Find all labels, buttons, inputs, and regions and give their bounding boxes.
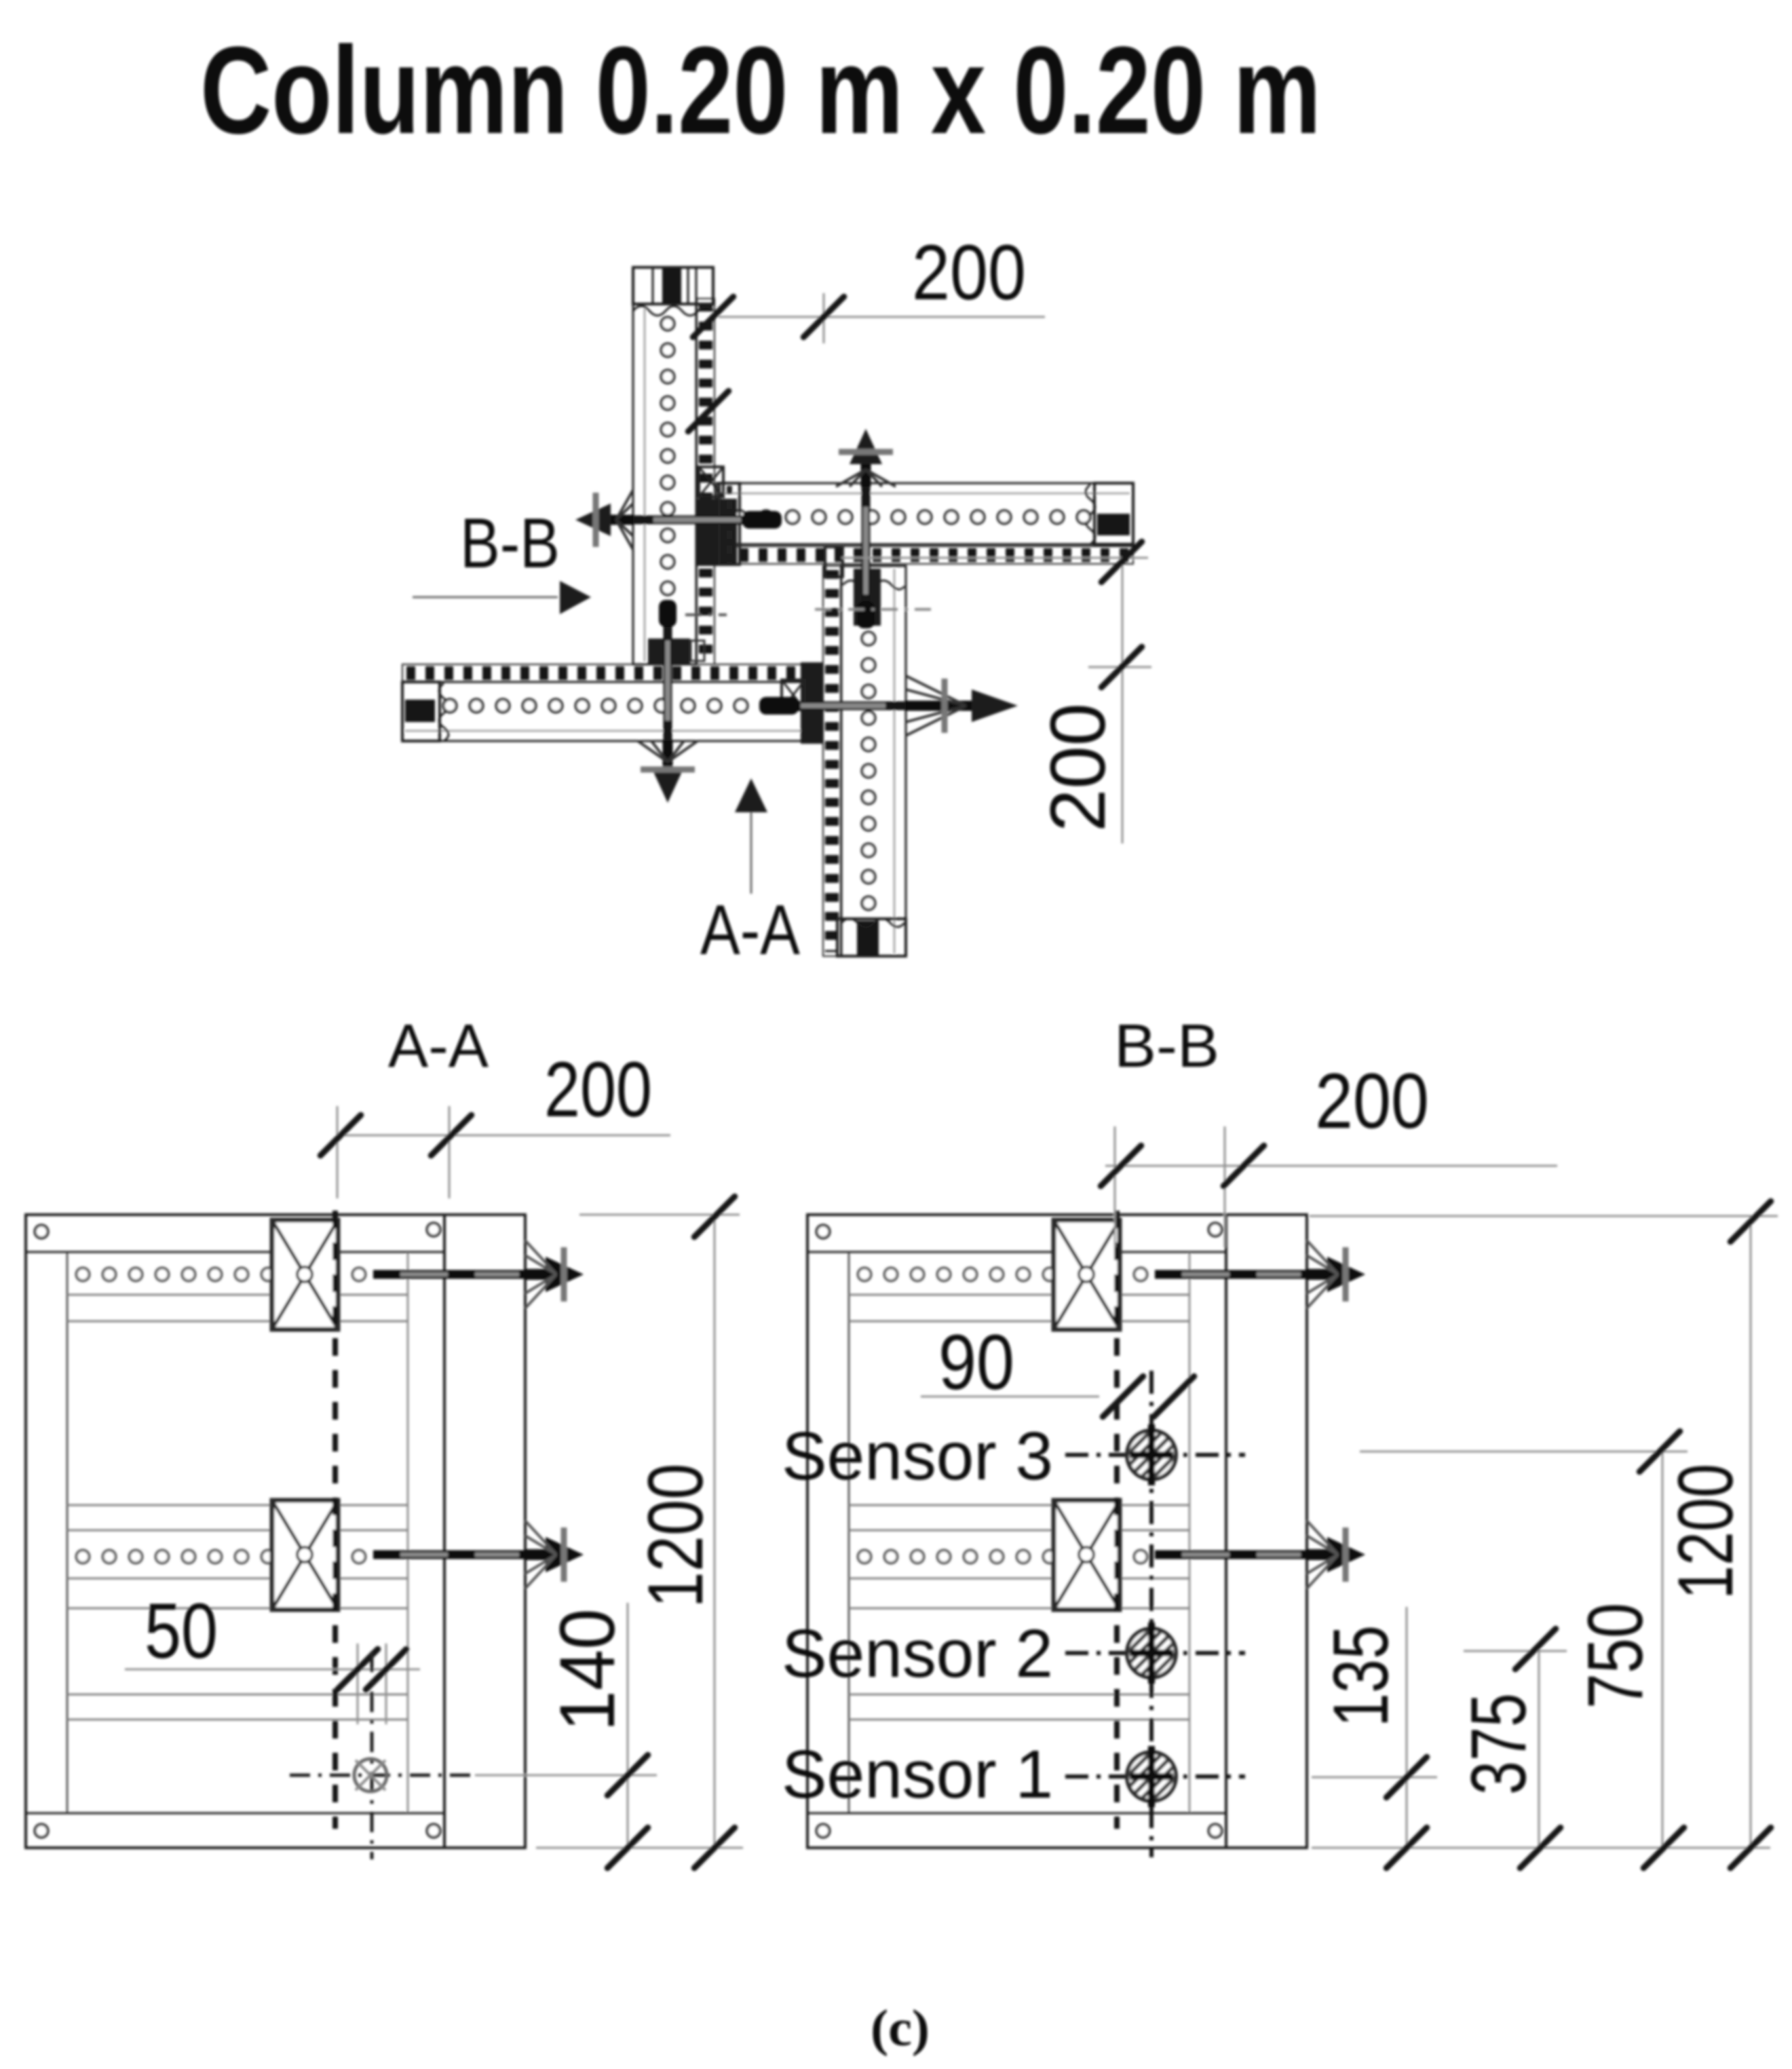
holes of top panel	[662, 318, 674, 330]
tie rod lower	[1155, 1551, 1307, 1559]
B-B dimension 200	[1114, 1126, 1116, 1247]
plan view: formwork panel left (horizontal, below column)	[402, 682, 822, 741]
B-B dimension 90	[921, 1396, 1099, 1398]
A-A dimension 140	[475, 1774, 657, 1777]
tie rod north (vertical through upper-right corner)	[862, 487, 871, 615]
waler clamp upper	[272, 1220, 338, 1329]
centre line marks in column core	[685, 613, 727, 616]
tie rod south (vertical through lower-left corner)	[664, 620, 672, 741]
section mark A-A with arrow	[735, 778, 767, 812]
right joint of left panel (overlap with bottom panel strip)	[801, 662, 822, 744]
section outline	[807, 1215, 1307, 1848]
waler clamp lower	[1054, 1500, 1120, 1610]
waler band lines	[849, 1294, 1189, 1296]
B-B dimension 375	[1464, 1650, 1567, 1652]
svg-text:Sensor 1: Sensor 1	[782, 1736, 1053, 1812]
tie rod lower	[373, 1551, 525, 1559]
svg-text:750: 750	[1572, 1603, 1659, 1709]
tie rod east (horizontal through lower-right corner)	[780, 702, 906, 710]
waler clamp lower	[272, 1500, 338, 1610]
section cut dashed line	[1114, 1211, 1120, 1829]
corner screw holes	[817, 1226, 830, 1238]
section cut dashed line	[332, 1211, 338, 1829]
svg-text:Column 0.20 m x 0.20 m: Column 0.20 m x 0.20 m	[200, 20, 1321, 159]
svg-text:1200: 1200	[632, 1464, 719, 1608]
hole rows	[77, 1268, 90, 1281]
holes of right panel	[733, 511, 746, 524]
dimension 200 (right, plan)	[1122, 558, 1124, 843]
B-B dimension 1200	[1310, 1215, 1778, 1217]
holes of bottom panel	[862, 632, 875, 645]
tie rod west (horizontal through upper-left corner)	[633, 516, 761, 525]
svg-text:90: 90	[938, 1319, 1014, 1406]
left joint of right panel (overlap with top panel strip)	[698, 499, 737, 566]
dimension 200 (top, plan)	[719, 316, 1045, 318]
plan view: formwork panel right (horizontal, above column)	[717, 483, 1133, 544]
svg-text:375: 375	[1455, 1693, 1542, 1795]
A-A sensor position symbol	[290, 1774, 475, 1777]
clamp at lower joint	[782, 680, 805, 710]
sensor 2	[1065, 1651, 1245, 1655]
section outline	[26, 1215, 525, 1848]
B-B dimension 135	[1312, 1777, 1437, 1779]
svg-text:A-A: A-A	[700, 891, 801, 970]
svg-text:50: 50	[145, 1588, 218, 1675]
B-B dimension 750	[1360, 1451, 1688, 1453]
sensor axis dash-dot vertical	[1149, 1371, 1154, 1857]
sensor 3	[1065, 1453, 1245, 1457]
A-A dimension 50	[125, 1669, 420, 1671]
tie rod upper	[1155, 1270, 1307, 1279]
bottom joint of top panel	[648, 639, 690, 664]
sensor 1	[1065, 1774, 1245, 1779]
svg-text:Sensor 3: Sensor 3	[782, 1418, 1053, 1494]
top joint of bottom panel	[854, 569, 881, 626]
waler band lines	[67, 1294, 408, 1296]
svg-text:200: 200	[1035, 703, 1122, 832]
corner screw holes	[35, 1226, 48, 1238]
holes of left panel	[444, 700, 457, 713]
svg-text:(c): (c)	[871, 2000, 930, 2057]
svg-text:140: 140	[544, 1609, 631, 1732]
hole rows	[858, 1268, 871, 1281]
svg-text:1200: 1200	[1662, 1464, 1749, 1599]
A-A dimension 200	[337, 1106, 339, 1198]
A-A dimension 1200	[579, 1214, 740, 1216]
tie rod upper	[373, 1270, 525, 1279]
svg-text:Sensor 2: Sensor 2	[782, 1616, 1053, 1692]
svg-text:A-A: A-A	[388, 1012, 489, 1080]
svg-text:200: 200	[912, 229, 1026, 316]
waler clamp upper	[1054, 1220, 1120, 1329]
svg-text:135: 135	[1318, 1625, 1405, 1727]
svg-text:B-B: B-B	[460, 504, 560, 583]
clamp at upper joint	[699, 467, 723, 497]
clamp at right joint	[825, 547, 843, 577]
svg-text:200: 200	[1315, 1058, 1429, 1145]
plan view: formwork panel top (vertical, left of column)	[633, 267, 696, 664]
svg-text:B-B: B-B	[1114, 1012, 1219, 1080]
svg-text:200: 200	[544, 1046, 652, 1133]
plan view: formwork panel bottom (vertical, right of column)	[841, 566, 906, 956]
